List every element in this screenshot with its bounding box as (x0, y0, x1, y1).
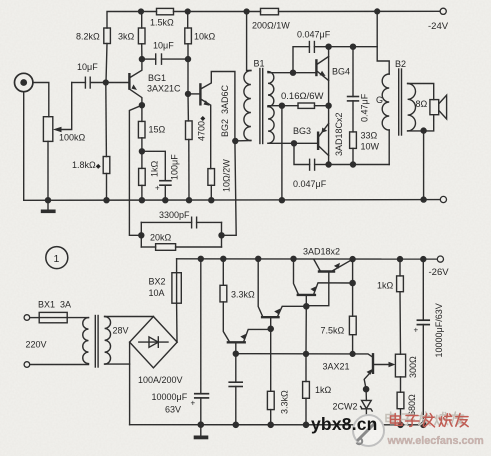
transistor BG3 (317, 133, 319, 149)
wire 10k leads (187, 12, 189, 29)
resistor 680 ohm (400, 377, 402, 392)
node B1 primary bottom (233, 139, 238, 144)
wire bridge left corner to rail (129, 342, 131, 425)
node gnd 10ohm (209, 198, 214, 203)
node BG3 base (292, 141, 297, 146)
node out cap gnd (421, 422, 426, 427)
node gnd B1 tap (279, 198, 284, 203)
node 7.5k bottom (350, 352, 355, 357)
ground symbol top section (47, 200, 49, 209)
node B2 feed bus (375, 9, 380, 14)
input jack J1 (15, 73, 33, 91)
node Q3 collector bus (256, 256, 261, 261)
node zobel top (351, 44, 356, 49)
node B1 center tap (279, 103, 284, 108)
fuse BX1 3A (30, 317, 40, 319)
node gnd 1k (139, 198, 144, 203)
wire B2 sec to speaker (408, 84, 434, 100)
transistor BG2 (199, 84, 201, 104)
node Q2 collector bus (291, 256, 296, 261)
node Q4 base (233, 351, 238, 356)
capacitor 0.047uF bottom (294, 143, 310, 164)
transistor BG4 (315, 60, 317, 75)
feedback loop wires (140, 222, 142, 247)
resistor 1k (BG1 emitter) (139, 168, 146, 185)
transformer B1 secondary upper (268, 72, 274, 107)
wire secondary bottom (105, 363, 130, 365)
capacitor 100uF (142, 151, 165, 180)
node 10k top (185, 9, 190, 14)
capacitor 3300pF (191, 217, 193, 228)
wire 8.2k to node A (106, 44, 107, 83)
node feedback left (139, 233, 144, 238)
wire bridge right to fuse BX2 (176, 303, 178, 342)
transformer B2 secondary (408, 84, 416, 131)
wire ground bus top section (24, 199, 441, 202)
bridge rectifier 100A/200V (130, 317, 178, 368)
node gnd pot (46, 198, 51, 203)
transformer B1 secondary lower (268, 107, 274, 144)
transformer B1 primary (247, 12, 251, 71)
wire secondary top to bridge (105, 316, 154, 318)
resistor 4700 (186, 121, 193, 140)
fuse BX2 10A (172, 273, 181, 304)
wire bottom link to B2 (329, 164, 390, 166)
node gnd 100uF (163, 198, 168, 203)
figure number circle 1 (46, 247, 68, 269)
power transformer secondary 28V (105, 317, 111, 365)
svg-text:ybx8.cn: ybx8.cn (311, 414, 378, 434)
node output rail top (326, 44, 331, 49)
speaker 8ohm (430, 100, 439, 115)
node rail bottom (326, 162, 331, 167)
wire top link to B2 (329, 46, 378, 48)
node zener top (364, 387, 369, 392)
wire feedback from BG1 emitter (129, 105, 142, 235)
wire base node to 1k (305, 306, 307, 354)
potentiometer 300 ohm (395, 354, 405, 377)
node Q3 base (268, 326, 273, 331)
node Q1 emitter bus (350, 257, 355, 262)
node 680 gnd (398, 422, 403, 427)
resistor 10k (185, 28, 192, 44)
power transformer primary (83, 318, 89, 364)
watermark logo circle (353, 415, 384, 446)
resistor 10/2W (208, 169, 215, 186)
transistor Q3 driver (262, 316, 278, 318)
node zobel bottom (351, 162, 356, 167)
capacitor 10000uF/63V main filter (198, 256, 203, 261)
terminal AC top (24, 315, 30, 321)
node BG2 base top (186, 57, 191, 62)
resistor 15 ohm (138, 121, 145, 137)
resistor 33/10W (350, 132, 357, 149)
node B1 primary top bus (244, 9, 249, 14)
transistor BG1 (128, 74, 130, 88)
watermark red outline text (391, 414, 469, 427)
capacitor 10000uF/63V output (421, 257, 426, 262)
terminal AC bottom (24, 362, 30, 368)
resistor 7.5k (352, 283, 354, 316)
node BG4 base (291, 70, 296, 75)
wire output rail (328, 47, 330, 165)
wire B1 center tap (268, 105, 282, 107)
capacitor 10uF input (84, 77, 86, 88)
resistor 1.8k (103, 157, 110, 174)
ground symbol bottom section (200, 425, 202, 435)
node 1k top (304, 351, 309, 356)
transistor Q4 driver (228, 341, 245, 343)
terminal speaker return (440, 196, 446, 202)
node 3.3k gnd (268, 422, 273, 427)
node A junction input (103, 80, 108, 85)
wire ground rail bottom (130, 424, 424, 426)
wire B1 sec bottom to BG3 base (268, 142, 294, 144)
resistor 3.3k lower (270, 329, 272, 392)
capacitor 10uF interstage (155, 54, 157, 64)
power transformer core (94, 316, 96, 368)
node feedback right (219, 233, 224, 238)
wire Q1 emitter to base wire (352, 259, 354, 283)
resistor 1k right (398, 257, 403, 262)
wire 3k leads (141, 12, 143, 29)
node gnd speaker (421, 197, 426, 202)
transformer B2 core (398, 69, 400, 135)
potentiometer 100k (43, 117, 52, 142)
capacitor 0.1uF (235, 354, 237, 383)
node emitter R junction (139, 149, 144, 154)
capacitor 0.47uF zobel (352, 47, 354, 97)
node 1k gnd (303, 422, 308, 427)
resistor 200/1W (inline top bus) (261, 8, 279, 14)
wire -24V top bus (107, 12, 157, 29)
resistor 1.5k (inline top bus) (157, 8, 174, 14)
node filter cap gnd (198, 422, 203, 427)
wire AC bottom (30, 364, 89, 366)
capacitor 0.047uF top (293, 47, 309, 73)
resistor 8.2k (104, 28, 111, 44)
wire -26V bus (177, 258, 438, 260)
node gnd 4700 (187, 198, 192, 203)
node 3k top (139, 9, 144, 14)
wire B1 primary bottom to feedback (222, 141, 237, 235)
transistor Q1 pass 3AD18x2 (319, 270, 334, 272)
node BG1 collector (139, 57, 144, 62)
wire B1 sec top to BG4 base (268, 72, 293, 73)
resistor 20k (156, 244, 176, 251)
zener 2CW2 (365, 389, 367, 400)
resistor 3k (138, 28, 145, 44)
resistor 3.3k upper (221, 256, 226, 261)
resistor 1k middle (305, 354, 307, 382)
node gnd 1.8k (104, 198, 109, 203)
transformer B2 primary (382, 74, 389, 130)
node BG2 base (186, 91, 191, 96)
node Q2 base (304, 304, 309, 309)
node BG1 emitter (139, 103, 144, 108)
node speaker bottom (421, 128, 426, 133)
node 0.1uF gnd (233, 422, 238, 427)
resistor 0.16/6W (298, 103, 315, 108)
transformer B1 core (259, 69, 261, 144)
wire Q4 base bus (236, 353, 353, 355)
transistor Q5 3AX21 (372, 354, 374, 373)
node 7.5k top (350, 280, 355, 285)
terminal -26V (437, 256, 443, 262)
terminal -24V (440, 8, 446, 14)
transistor Q2 pass (298, 294, 315, 296)
diode inside bridge (139, 341, 168, 343)
